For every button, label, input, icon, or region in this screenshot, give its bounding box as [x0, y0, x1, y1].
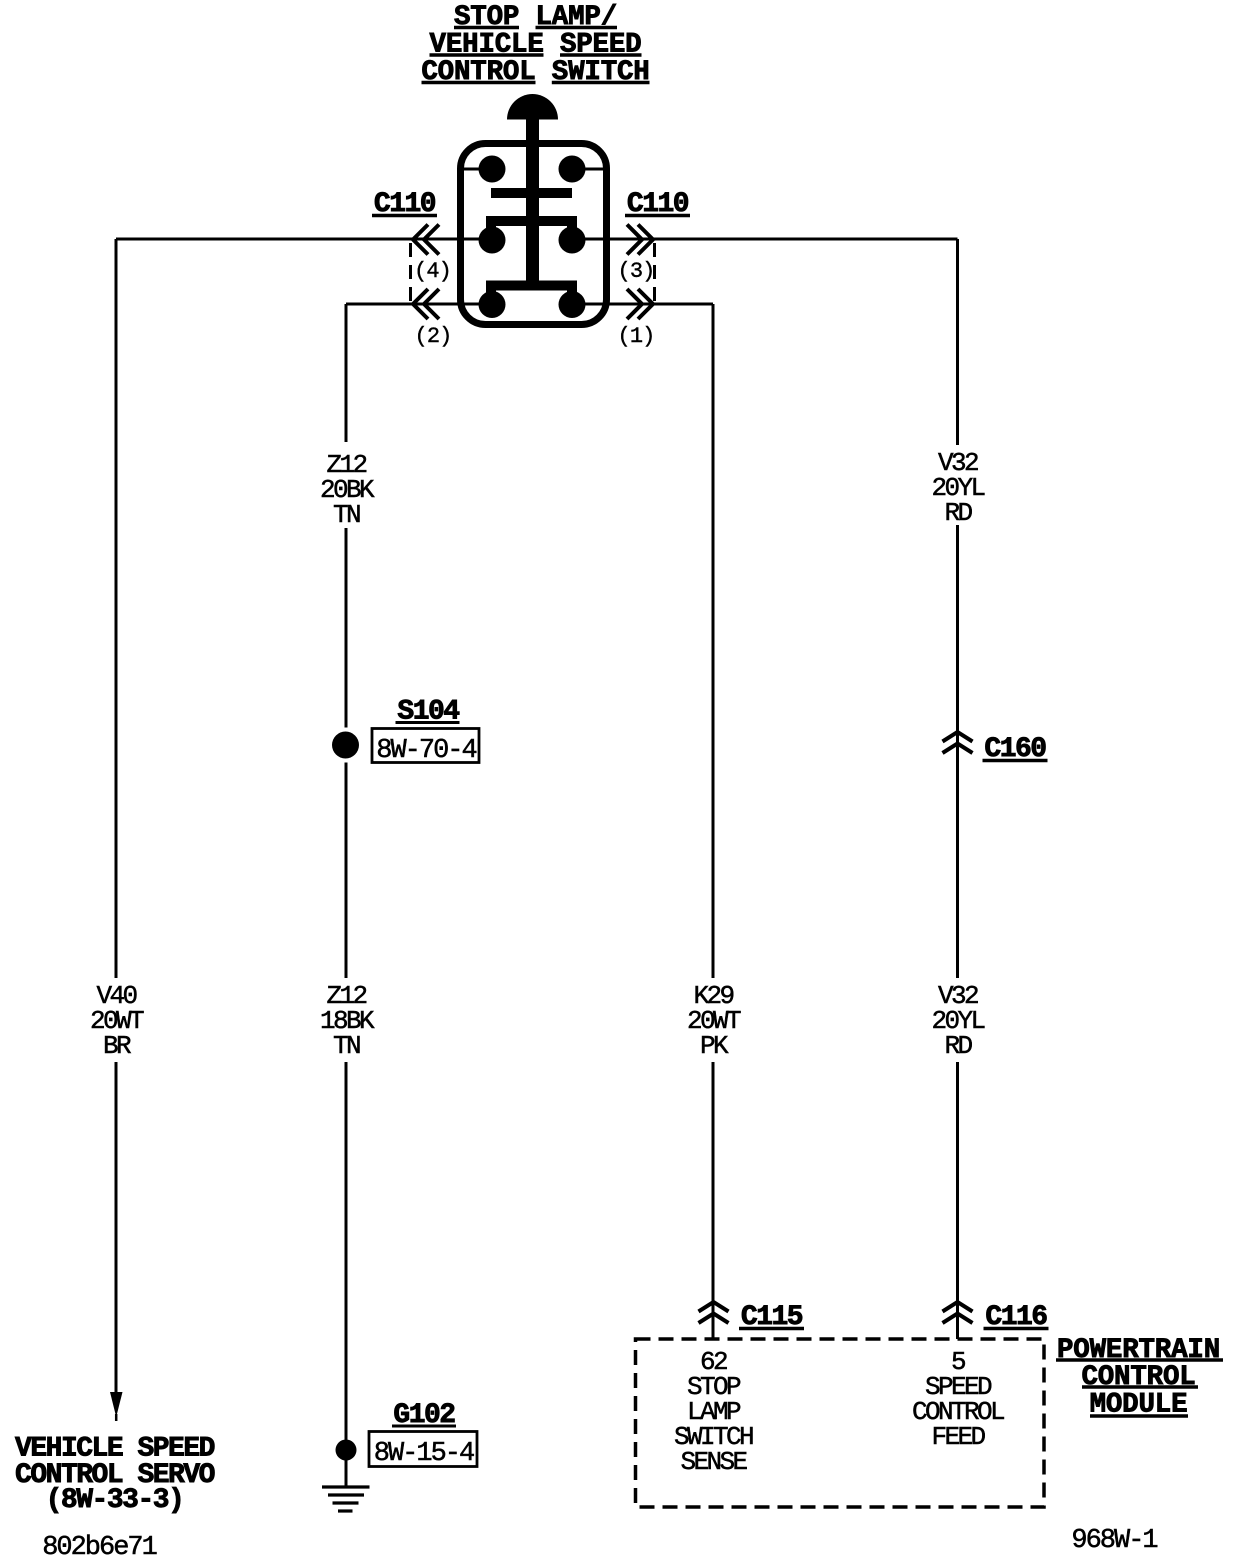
switch contact bar bottom [491, 286, 572, 302]
title label: STOP LAMP / VEHICLE SPEED CONTROL SWITCH [421, 2, 649, 88]
svg-text:SENSE: SENSE [680, 1447, 747, 1477]
wire: switch pin 3 to right run, y=239 [572, 238, 958, 241]
wire label V40 20WT BR [90, 981, 144, 1061]
wire label K29 20WT PK [687, 981, 741, 1061]
switch terminal pin mid-right [559, 227, 586, 254]
connector C110 left chevrons at pin 2 wire [413, 289, 439, 319]
ground symbol [322, 1487, 370, 1511]
reference box 8W-70-4 [372, 729, 479, 767]
switch actuator stem [526, 117, 539, 287]
node label: VEHICLE SPEED CONTROL SERVO (8W-33-3) [15, 1434, 215, 1517]
switch contact bar middle [491, 221, 572, 237]
svg-text:8W-70-4: 8W-70-4 [376, 736, 476, 766]
wire Z12: vertical segment above upper label [345, 304, 348, 442]
svg-text:(8W-33-3): (8W-33-3) [46, 1485, 184, 1516]
wire V40: left vertical run upper segment [115, 239, 118, 978]
connector C110 left label [372, 189, 437, 220]
wire K29: vertical run upper segment [712, 304, 715, 978]
switch terminal pin top-left [479, 156, 506, 183]
switch terminal pin top-right [559, 156, 586, 183]
switch plunger dome [507, 94, 558, 120]
reference box 8W-15-4 [369, 1432, 477, 1470]
switch body outline [461, 144, 607, 325]
wire V40: left vertical run lower segment [115, 1062, 118, 1393]
svg-text:8W-15-4: 8W-15-4 [374, 1439, 474, 1469]
connector C110 left dashed boundary line [409, 243, 412, 301]
svg-text:TN: TN [333, 500, 360, 530]
wire Z12: vertical segment through splice [345, 528, 348, 728]
svg-text:802b6e71: 802b6e71 [42, 1533, 156, 1562]
svg-text:PK: PK [700, 1031, 729, 1061]
svg-text:TN: TN [333, 1031, 360, 1061]
switch pin stub top-right [572, 168, 607, 171]
connector C160 label [983, 734, 1048, 765]
svg-text:FEED: FEED [931, 1422, 985, 1452]
svg-text:(2): (2) [415, 324, 452, 349]
svg-text:(1): (1) [618, 324, 655, 349]
wire: switch pin 2 to left run, y=304 [346, 303, 492, 306]
wire V32: vertical run lower segment [956, 1062, 959, 1339]
switch pin stub top-left [460, 168, 492, 171]
connector C115 label [739, 1302, 804, 1333]
wire: switch pin 4 to left run, y=239 [116, 238, 492, 241]
wire V32: vertical segment through C160 [956, 525, 959, 978]
svg-text:RD: RD [944, 1031, 972, 1061]
connector C110 right dashed boundary line [653, 243, 656, 301]
PCM label: POWERTRAIN CONTROL MODULE [1056, 1335, 1223, 1421]
wire: switch pin 1 to right run, y=304 [572, 303, 713, 306]
wire V32: vertical segment above upper label [956, 239, 959, 445]
connector C160 chevrons [943, 732, 973, 753]
switch contact bar top [491, 188, 572, 198]
wire label V32 20YL RD (lower) [931, 981, 984, 1061]
splice S104 junction dot [332, 732, 359, 759]
svg-text:(4): (4) [414, 259, 451, 284]
arrowhead to vehicle speed control servo [110, 1392, 123, 1417]
svg-text:968W-1: 968W-1 [1071, 1526, 1157, 1556]
svg-text:BR: BR [103, 1031, 131, 1061]
PCM pin 62 label: 62 STOP LAMP SWITCH SENSE [674, 1347, 753, 1477]
connector C110 right label [625, 189, 690, 220]
connector C110 right chevrons at pin 1 wire [627, 289, 653, 319]
splice S104 label [396, 697, 460, 728]
switch S1: stop lamp / vehicle speed control switch symbol [460, 94, 607, 325]
powertrain control module dashed outline [636, 1339, 1045, 1507]
switch terminal pin bottom-right [559, 291, 586, 318]
svg-text:RD: RD [944, 498, 972, 528]
PCM pin 5 label: 5 SPEED CONTROL FEED [912, 1347, 1004, 1452]
connector C110 right chevrons at pin 3 wire [627, 225, 653, 255]
connector C116 label [984, 1302, 1049, 1333]
switch terminal pin mid-left [479, 227, 506, 254]
wire K29: vertical run lower segment [712, 1062, 715, 1339]
wire Z12: vertical segment below lower label to ground [345, 1062, 348, 1487]
switch terminal pin bottom-left [479, 291, 506, 318]
wire label Z12 18BK TN (lower) [320, 981, 375, 1061]
connector C116 chevrons [943, 1302, 973, 1323]
wire label Z12 20BK TN (upper) [320, 450, 375, 530]
ground G102 junction dot [336, 1440, 357, 1461]
svg-text:(3): (3) [618, 259, 655, 284]
connector C115 chevrons [699, 1302, 729, 1323]
ground G102 label [392, 1400, 456, 1431]
connector C110 left chevrons at pin 4 wire [413, 225, 439, 255]
wire label V32 20YL RD (upper) [931, 448, 984, 528]
